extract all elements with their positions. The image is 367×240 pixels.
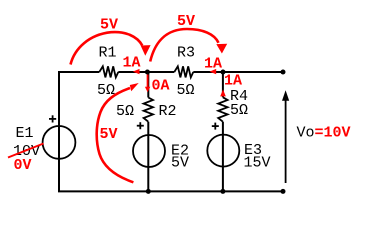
svg-text:15V: 15V [244,155,271,172]
node F dot (bottom right end) [281,189,286,194]
plus E1 [49,115,56,122]
wire left rail [58,71,60,191]
current arrow 1A at R3 output [210,69,217,74]
svg-text:5V: 5V [100,17,118,34]
svg-text:0A: 0A [152,78,170,95]
svg-text:1A: 1A [123,55,141,72]
svg-text:5Ω: 5Ω [177,82,195,99]
arrowhead arc2 [216,44,227,54]
source E2 [133,135,165,167]
svg-text:0V: 0V [14,157,32,174]
plus E2 [137,122,144,129]
node C dot (top right end) [281,70,286,75]
svg-text:5V: 5V [177,13,195,30]
wire middle branch upper [147,72,149,98]
current arrow 0A down on R2 branch [147,75,149,88]
wire top-left segment [58,71,99,73]
wire bottom [58,190,283,192]
node D dot (mid bottom) [146,189,151,194]
svg-text:5Ω: 5Ω [230,102,248,119]
resistor R4 [218,97,227,121]
svg-text:E1: E1 [16,125,34,142]
svg-text:5V: 5V [171,155,189,172]
annotation arc 5V left C-curve [97,88,134,182]
wire middle branch lower [147,122,149,192]
node B dot (right top) [221,70,226,75]
source E3 [207,135,239,167]
node E dot (right bottom) [220,189,225,194]
wire right branch upper [222,72,224,97]
resistor R2 [144,98,153,122]
current arrow 1A up on R4 branch [220,89,226,96]
current arrow 1A at R1 output [133,69,140,74]
svg-text:5V: 5V [100,126,118,143]
strike line over 10V [8,144,44,158]
annotation arc 5V over R1 [71,32,143,64]
svg-text:R2: R2 [159,103,177,120]
wire top-right segment [193,71,283,73]
svg-text:5Ω: 5Ω [116,103,134,120]
svg-text:R3: R3 [177,45,195,62]
svg-text:Vo: Vo [297,125,315,142]
source E1 [43,126,76,159]
wire top-middle segment [118,71,174,73]
wire right branch lower [222,122,224,192]
svg-text:1A: 1A [204,56,222,73]
annotation arc 5V over R3 [150,29,218,62]
Vo arrow [285,97,287,183]
svg-text:1A: 1A [224,73,242,90]
resistor R1 [99,66,118,77]
node A dot (mid top) [145,70,150,75]
svg-text:=10V: =10V [315,125,351,142]
arrowhead arc1 [141,45,151,56]
resistor R3 [174,66,193,77]
arrowhead arc3 [130,83,139,91]
svg-text:R1: R1 [99,45,117,62]
plus E3 [212,123,219,130]
